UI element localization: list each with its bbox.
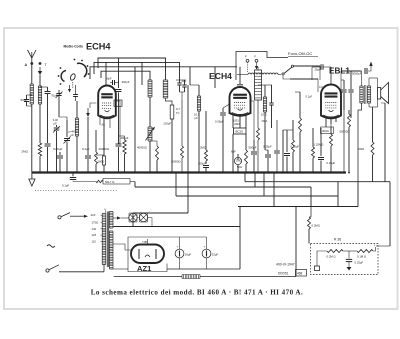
svg-text:10000Ω: 10000Ω [171,160,180,164]
label 5XX/51 [278,270,307,277]
wire top drop x215 [214,67,216,88]
resistor 10000ohm [171,100,184,173]
ground symbol main [29,173,35,187]
wire fono to EBL1 a [294,66,321,80]
wire fono to EBL1 b [290,79,326,99]
svg-text:+: + [177,245,179,249]
tube ECH4 second envelope [230,87,251,116]
wire L2 down [39,104,41,143]
svg-text:0.2M Ω: 0.2M Ω [327,255,336,259]
terminal A [25,62,34,67]
tube ECH4 first envelope [98,85,122,126]
svg-text:50000Ω: 50000Ω [340,130,350,134]
svg-text:7186: 7186 [142,241,148,244]
svg-text:32μF: 32μF [212,253,219,257]
svg-text:Fono-OM-OC: Fono-OM-OC [288,51,312,56]
speaker [378,78,389,107]
caption model list [91,289,303,297]
power transformer primary [102,214,106,265]
capacitor 400uF [116,136,129,173]
resistor 40000ohm tall [119,136,127,173]
resistor 2Mohm [22,143,42,173]
resistor 1Mohm 50ohm [236,150,248,173]
pilot lamp 1 [129,213,137,222]
IF can coil [255,67,262,128]
label V top [104,207,106,212]
svg-text:500pF: 500pF [249,146,257,150]
svg-text:0.25μF: 0.25μF [263,145,272,149]
tube AZ1 envelope [131,245,164,264]
capacitor 6uF [231,150,242,173]
resistor 0.1Mohm R36 [343,244,376,259]
boxed label BC20 [234,128,247,134]
switch mains [61,213,88,218]
wire below-bus rail y182 [245,173,390,247]
capacitor 500pF [249,101,258,173]
svg-text:0.25μF: 0.25μF [327,161,336,165]
svg-text:110: 110 [92,239,97,243]
resistor 0.2Mohm right [308,187,320,244]
grid coil tube2 [190,85,201,173]
wire below-bus rail y206 [238,173,358,207]
wire EBL1 anode [340,71,342,92]
ground arrow under T [38,67,42,75]
resistor 50000ohm out [340,110,351,173]
bus junction dots [39,172,350,174]
svg-text:50Ω: 50Ω [237,165,242,169]
svg-text:BC20: BC20 [236,130,244,134]
IF2 cap [269,85,273,128]
capacitor 0.25uF out [284,130,300,173]
wire output primary return [358,103,362,182]
wire fono outline [236,52,288,81]
terminal F right [255,55,259,70]
svg-text:1MΩ: 1MΩ [236,159,242,163]
transformer tap labels [91,213,99,243]
IF1 tuning caps [176,79,187,100]
label Medie-Corte switch caption [64,45,84,49]
svg-text:6μF: 6μF [231,150,236,154]
svg-text:160Ω: 160Ω [98,160,105,164]
dotted line [35,190,118,192]
resistor 20000ohm [95,130,110,173]
R36 entry plug [315,251,328,271]
terminal F left [245,55,249,73]
capacitor bypass x277 [274,120,280,173]
oscillator coil [75,101,78,173]
svg-text:R 36: R 36 [334,238,341,242]
svg-text:2MΩ: 2MΩ [200,146,206,150]
electrolytic 32uF [202,237,218,269]
band switch rotor arc left [58,67,66,85]
switch fono lever [282,65,294,79]
wire x283 column [283,130,293,173]
svg-text:400-VI-1947: 400-VI-1947 [276,263,295,267]
svg-text:50H 7L: 50H 7L [105,180,115,184]
wire tube1 cathode [100,117,110,155]
wire tube1 left grid [90,103,96,108]
label tube EBL1 [329,67,350,76]
svg-text:5000pF: 5000pF [352,72,362,76]
wire output transformer leads [362,71,378,107]
svg-text:200Ω: 200Ω [358,147,365,151]
power transformer core [107,212,108,268]
svg-text:10.3: 10.3 [261,113,267,117]
resistor screen dropper [257,128,260,173]
label Fono-OM-OC [288,51,318,56]
pickup coil horizontal [237,73,281,75]
resistor 2Mohm tube2 [200,111,208,161]
wire antenna to coil L1 [31,64,33,85]
band switch lower contacts [68,85,78,101]
dashed box R36 [311,244,379,275]
wire top rail D [101,71,150,80]
svg-text:220pF: 220pF [164,122,172,126]
resistor 200ohm [358,107,375,182]
resistor 40000ohm 2 [137,141,159,173]
svg-text:F: F [245,55,247,59]
svg-text:Lo schema elettrico dei modd.: Lo schema elettrico dei modd. BI 460 A ·… [91,289,303,297]
svg-text:0.1μF: 0.1μF [306,95,313,99]
antenna coil L1 [30,84,33,104]
svg-text:μF: μF [195,116,199,120]
choke 50H 7L [96,179,135,185]
wire top rail B [94,62,180,80]
label 10.3uF left [194,113,200,121]
svg-text:0.1μF: 0.1μF [82,147,90,151]
svg-text:16μF: 16μF [185,253,192,257]
wire EBL1 top grid [330,67,332,85]
capacitor 0.05uF tube2 [215,104,230,173]
wire tube1 anode up [105,62,107,85]
svg-text:A: A [25,63,28,67]
svg-text:μF: μF [71,133,75,137]
band switch rotor arc right [74,59,90,77]
svg-text:+: + [204,245,206,249]
svg-text:OMA: OMA [234,122,240,126]
svg-text:Medie-Corte: Medie-Corte [64,45,84,49]
wire osc 1 [58,101,60,117]
capacitor pair EBL1 left [341,80,347,110]
svg-text:0.05μF: 0.05μF [53,147,63,151]
svg-text:0.1M Ω: 0.1M Ω [357,255,366,259]
oscillator transformer upper [148,80,152,97]
output transformer secondary [367,86,370,103]
trimmer 40pF [106,77,119,86]
capacitor 0.25uF det [263,145,272,173]
wire lamps return [137,218,152,227]
label tube ECH4 first [86,42,111,52]
capacitor 0.1uF bus [62,173,96,188]
svg-text:468: 468 [297,272,303,276]
capacitor padder u490 [64,120,77,173]
capacitor 50pF [21,95,32,106]
wire staircase left [133,173,188,227]
svg-text:1931: 1931 [233,119,239,123]
transformer tap leads [101,215,103,241]
wire top drop x135 [134,67,136,173]
capacitor 5000pF [341,62,373,76]
AZ1 enclosure wires [128,237,207,272]
output transformer core [365,85,366,104]
svg-text:40pF: 40pF [106,77,112,81]
trimmer 70pF [51,90,63,101]
capacitor 25pF [312,64,331,80]
capacitor 0.25uF right [318,93,344,173]
svg-text:TC: TC [176,111,180,115]
wire EBL1 pins [326,117,336,127]
ground bus [32,171,346,173]
capacitor 0.25uF R36 [346,251,364,271]
label AZ1 [137,264,152,273]
svg-text:ECH4: ECH4 [86,42,111,52]
svg-text:0.25μF: 0.25μF [355,261,364,265]
label 1931 OMA [233,119,240,127]
wire C2 junction [40,87,51,173]
IF transformer 2 [258,85,272,150]
svg-text:ECH4: ECH4 [209,71,232,81]
terminal mains bottom [46,265,104,272]
AZ1 internals [139,239,156,259]
oscillator transformer lower [146,97,156,173]
svg-text:140: 140 [92,227,97,231]
wire L1 to ground bus [31,104,33,173]
antenna symbol [28,50,37,63]
input coil L2 [38,86,41,104]
wire heater arrow [113,216,129,219]
boxed 400ohm [321,127,334,134]
resistor cathode EBL1 [330,127,333,173]
resistor avc [295,92,302,173]
svg-text:V: V [104,207,106,211]
svg-text:25pF: 25pF [315,68,322,72]
power transformer secondary [109,212,113,270]
svg-text:100μF: 100μF [198,162,206,166]
wire HT to AZ1 [113,244,131,269]
wire below-bus rail y187 [135,173,311,188]
capacitor C2 [45,87,51,100]
IF coil B [163,80,168,98]
resistor 1.25Mohm [312,128,324,173]
svg-text:F: F [255,55,257,59]
svg-text:220: 220 [91,213,96,217]
wire T to coil L2 [39,75,41,86]
svg-text:400Ω: 400Ω [322,129,329,133]
label R 36 [334,238,341,242]
resistor avc2 [292,120,295,173]
svg-text:125: 125 [92,233,97,237]
pilot lamp 2 [139,213,147,222]
svg-text:0.1μF: 0.1μF [62,184,69,188]
svg-text:9.7: 9.7 [176,107,180,111]
resistor 0.2Mohm R36 [327,250,344,259]
wire top drop x190 [189,67,191,85]
svg-text:170Ω: 170Ω [92,221,99,225]
svg-text:0.2MΩ: 0.2MΩ [312,224,320,228]
resistor 9.7 box [164,98,181,173]
capacitor 100uF [198,161,209,173]
svg-text:1.25MΩ: 1.25MΩ [314,143,324,147]
wire right column x385 [381,103,385,182]
wire top rail A [98,58,166,80]
wire tube1 right pins [116,101,120,143]
capacitor 300pF [116,58,130,143]
svg-text:μF: μF [54,121,58,125]
capacitor 0.05uF osc [53,147,63,173]
filter choke [114,275,296,279]
resistor 160ohm [96,155,106,173]
terminal mains top [58,216,61,219]
svg-text:40000Ω: 40000Ω [137,146,147,150]
wire feed R36 [295,207,297,277]
svg-text:2MΩ: 2MΩ [22,150,29,154]
svg-text:300pF: 300pF [122,80,130,84]
tube EBL1 envelope [321,85,341,119]
wire top drop x142 [141,62,143,85]
capacitor pair EBL1 right [348,71,353,118]
wire primary bottom [103,265,105,272]
capacitor 3-30pF trimmer [53,118,61,173]
mains cord squiggle [47,245,55,248]
label 400-VI-1947 [276,263,295,267]
svg-text:₂N₂: ₂N₂ [101,123,105,127]
wire return y226 [113,207,240,270]
svg-text:OMA: OMA [262,119,268,123]
output transformer primary [360,86,363,103]
grid arrow [86,108,90,117]
band switch centre contact [69,73,76,88]
terminal T [39,62,48,67]
label tube ECH4 second [209,71,232,81]
svg-text:5XX/51: 5XX/51 [278,272,289,276]
wire tube2 pins [233,115,246,173]
wire tube2 anode cap [237,67,243,88]
wire x188 column [187,85,189,173]
wire filter out [167,268,240,270]
capacitor 0.1uF g1 [82,117,91,173]
wire below-bus rail y196 [176,173,338,207]
wire top rail C [90,67,237,79]
electrolytic 16uF [175,237,191,269]
wire osc coil top [59,117,67,120]
